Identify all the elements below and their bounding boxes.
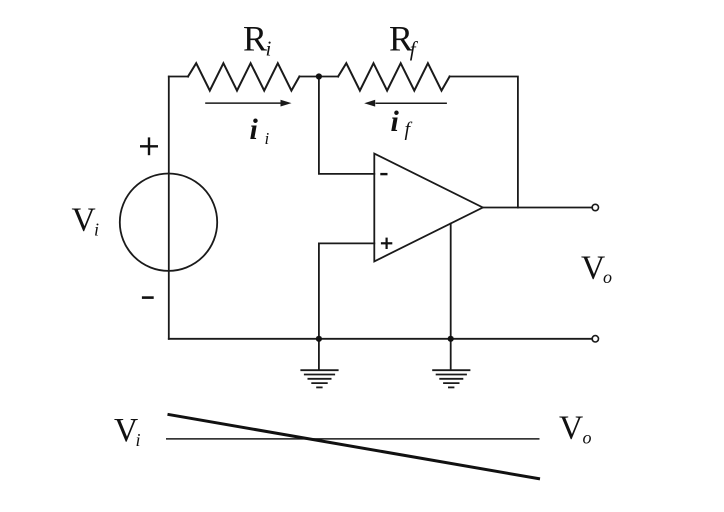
svg-text:R: R <box>243 18 267 58</box>
svg-text:o: o <box>583 427 592 447</box>
wire op-amp bottom to ground rail <box>450 224 452 339</box>
svg-text:f: f <box>410 37 419 61</box>
svg-text:V: V <box>581 249 605 286</box>
wire Ri to summing node <box>299 76 319 78</box>
wire bottom rail <box>169 338 592 340</box>
op-amp U1 triangle <box>374 154 483 262</box>
minus polarity of source <box>142 296 154 299</box>
svg-text:i: i <box>136 430 141 450</box>
ground stub left <box>318 339 320 370</box>
label current i_f <box>391 105 413 141</box>
label current i_i <box>250 113 270 148</box>
current arrow i_i <box>205 100 291 107</box>
wire node to Rf <box>319 76 338 78</box>
plus input label of op-amp <box>381 238 392 249</box>
current arrow i_f <box>364 100 447 107</box>
svg-text:o: o <box>603 267 612 287</box>
svg-text:i: i <box>266 37 272 61</box>
node junction dot right ground <box>448 336 454 342</box>
output terminal bottom <box>592 336 598 342</box>
wire Rf to top-right corner and feedback drop <box>450 77 518 208</box>
label source Vi <box>72 202 100 240</box>
label waveform Vi <box>114 412 141 450</box>
svg-text:V: V <box>559 409 583 446</box>
svg-text:f: f <box>405 119 413 141</box>
wire noninverting input <box>319 243 374 338</box>
label Rf <box>389 19 419 62</box>
node A junction dot at Ri/Rf <box>316 73 322 79</box>
svg-text:i: i <box>250 113 259 146</box>
wire left vertical through source <box>168 77 170 339</box>
ground stub right <box>450 339 452 370</box>
svg-text:i: i <box>265 129 270 148</box>
svg-text:V: V <box>72 202 96 239</box>
minus input label of op-amp <box>380 173 387 175</box>
resistor Ri zigzag <box>188 63 299 90</box>
resistor Rf zigzag <box>338 63 450 90</box>
svg-text:i: i <box>94 220 99 240</box>
ground symbol right <box>432 370 470 387</box>
voltage source Vi circle <box>120 174 217 271</box>
plus polarity of source <box>140 137 158 155</box>
label waveform Vo <box>559 409 592 447</box>
label Ri <box>243 18 272 60</box>
wire op-amp output <box>483 207 592 209</box>
svg-text:i: i <box>391 105 400 138</box>
waveform output sloped line <box>168 414 541 479</box>
output terminal top <box>592 204 598 210</box>
node junction dot left ground <box>316 336 322 342</box>
ground symbol left <box>300 370 338 387</box>
wire inverting input <box>319 77 374 174</box>
label output Vo <box>581 249 612 287</box>
waveform input axis line <box>166 438 540 440</box>
wire top-left segment <box>169 76 188 78</box>
